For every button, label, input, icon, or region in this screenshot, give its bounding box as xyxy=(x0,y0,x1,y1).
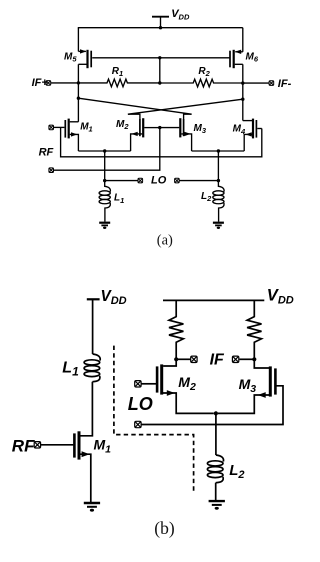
wire IF+ terminal to node xyxy=(51,82,79,84)
wire LO left branch xyxy=(105,180,138,182)
resistor R2 xyxy=(160,79,243,87)
wire left tail down to L1 xyxy=(104,151,106,181)
inductor L2 (a) xyxy=(213,181,224,222)
FIGURE (b) xyxy=(12,287,294,538)
svg-text:M3: M3 xyxy=(239,376,257,395)
junction dot gate line center xyxy=(158,56,161,59)
svg-text:L1: L1 xyxy=(114,193,124,205)
terminal IF right (b) xyxy=(232,356,238,362)
transistor M1 (b) xyxy=(41,431,91,502)
terminal M1 gate xyxy=(49,125,54,130)
svg-text:(b): (b) xyxy=(154,518,175,538)
wire RF line M1 gate to M4 gate xyxy=(61,127,262,156)
inductor L1 (a) xyxy=(99,181,110,222)
transistor M2 (cross-coupled, left inner) xyxy=(128,114,160,151)
svg-text:M5: M5 xyxy=(64,51,77,63)
wire right vertical M6 drain down to M4 drain (IF- node) xyxy=(242,64,244,120)
transistor M1 (RF, left outer) xyxy=(53,119,78,151)
inductor L1 (b) xyxy=(84,354,100,382)
wire gate line M5 to M6 xyxy=(92,57,230,59)
power VDD supply bar (a) xyxy=(152,16,169,18)
wire center node down and left to terminal xyxy=(54,128,160,171)
svg-text:VDD: VDD xyxy=(101,288,127,307)
wire IF right branch xyxy=(239,358,254,360)
svg-text:R1: R1 xyxy=(112,66,123,78)
wire VDD stem to rail xyxy=(160,17,162,28)
wire IF left branch xyxy=(176,358,191,360)
wire center link gate line to IF midpoint xyxy=(159,58,161,83)
resistor left (b) xyxy=(169,300,183,359)
inductor L2 (b) xyxy=(207,455,223,483)
transistor M4 (RF, right outer) xyxy=(243,119,262,151)
power VDD bar left (b) xyxy=(87,298,100,300)
ground under L2 (b) xyxy=(209,501,225,510)
junction dot M2/M3 drains center xyxy=(158,126,161,129)
svg-text:L2: L2 xyxy=(201,191,212,203)
terminal IF left (b) xyxy=(191,356,197,362)
wire L1 down to M1 drain xyxy=(81,382,93,436)
junction dot right tail xyxy=(217,149,220,152)
junction dot IF right (b) xyxy=(252,357,256,361)
wire cross-coupling diagonal left node to M3 gate xyxy=(78,98,191,114)
wire top VDD rail right (b) xyxy=(163,299,264,301)
svg-text:RF: RF xyxy=(12,437,35,456)
wire right vertical VDD to M6 source xyxy=(242,28,244,52)
wire LO right branch xyxy=(179,180,218,182)
wire left vertical VDD to M5 source xyxy=(77,28,79,52)
wire left vertical M5 drain down to M1 drain (IF+ node) xyxy=(77,64,79,122)
resistor R1 xyxy=(78,79,159,87)
svg-text:M1: M1 xyxy=(94,437,112,456)
svg-text:L1: L1 xyxy=(62,359,79,378)
terminal LO right xyxy=(175,178,180,183)
resistor right (b) xyxy=(247,300,261,359)
junction dot left tail xyxy=(103,149,106,152)
svg-text:M2: M2 xyxy=(116,119,129,131)
wire top VDD rail xyxy=(78,27,243,29)
terminal center node input xyxy=(49,168,54,173)
svg-text:M6: M6 xyxy=(246,51,259,63)
svg-text:IF+: IF+ xyxy=(32,77,49,89)
wire L2 to ground xyxy=(215,483,217,501)
terminal IF+ xyxy=(46,81,51,86)
svg-text:RF: RF xyxy=(39,147,54,159)
junction dot IF+ node xyxy=(77,81,80,84)
svg-text:IF-: IF- xyxy=(278,78,292,90)
transistor M3 (b) xyxy=(141,359,283,424)
junction dot IF midpoint xyxy=(158,81,161,84)
svg-text:M2: M2 xyxy=(178,374,196,393)
transistor M2 (b) xyxy=(141,359,214,413)
svg-text:LO: LO xyxy=(128,394,153,414)
transistor M6 (PMOS load, right) xyxy=(230,50,243,69)
svg-text:LO: LO xyxy=(151,175,167,187)
wire right tail down to L2 xyxy=(217,151,219,181)
svg-text:VDD: VDD xyxy=(267,287,294,307)
transistor M3 (cross-coupled, right inner) xyxy=(160,114,192,151)
ground under M1 (b) xyxy=(84,503,100,512)
terminal LO upper (b) xyxy=(135,381,141,387)
svg-text:M4: M4 xyxy=(233,124,246,136)
ground under L2 (a) xyxy=(213,223,224,229)
junction dot common source node (b) xyxy=(214,411,218,415)
junction dot IF- node xyxy=(241,81,244,84)
transistor M5 (PMOS load, left) xyxy=(78,49,91,68)
junction dot L1 top xyxy=(103,179,106,182)
terminal RF (b) xyxy=(34,442,40,448)
svg-text:M1: M1 xyxy=(80,121,93,133)
wire VDD left stem xyxy=(92,299,94,354)
svg-text:M3: M3 xyxy=(194,123,207,135)
wire right tail M3/M4 sources xyxy=(192,150,245,152)
wire left tail M1/M2 sources xyxy=(78,150,130,152)
terminal LO left xyxy=(138,178,143,183)
junction dot L2 top xyxy=(217,179,220,182)
junction dot left diagonal takeoff xyxy=(77,97,80,100)
svg-text:R2: R2 xyxy=(198,66,210,78)
ground under L1 (a) xyxy=(99,223,110,229)
terminal IF- xyxy=(269,81,274,86)
wire IF- node to terminal xyxy=(243,82,269,84)
wire common node down to L2 xyxy=(215,413,217,455)
svg-text:IF: IF xyxy=(210,352,225,369)
terminal LO lower (b) xyxy=(135,421,141,427)
junction dot right diagonal takeoff xyxy=(241,98,244,101)
svg-text:VDD: VDD xyxy=(171,8,190,21)
dashed boundary line xyxy=(114,346,194,493)
junction dot IF left (b) xyxy=(174,357,178,361)
svg-text:(a): (a) xyxy=(157,233,173,249)
wire cross-coupling diagonal right node to M2 gate xyxy=(128,99,243,114)
junction dot VDD rail center xyxy=(159,26,162,29)
svg-text:L2: L2 xyxy=(229,462,244,481)
